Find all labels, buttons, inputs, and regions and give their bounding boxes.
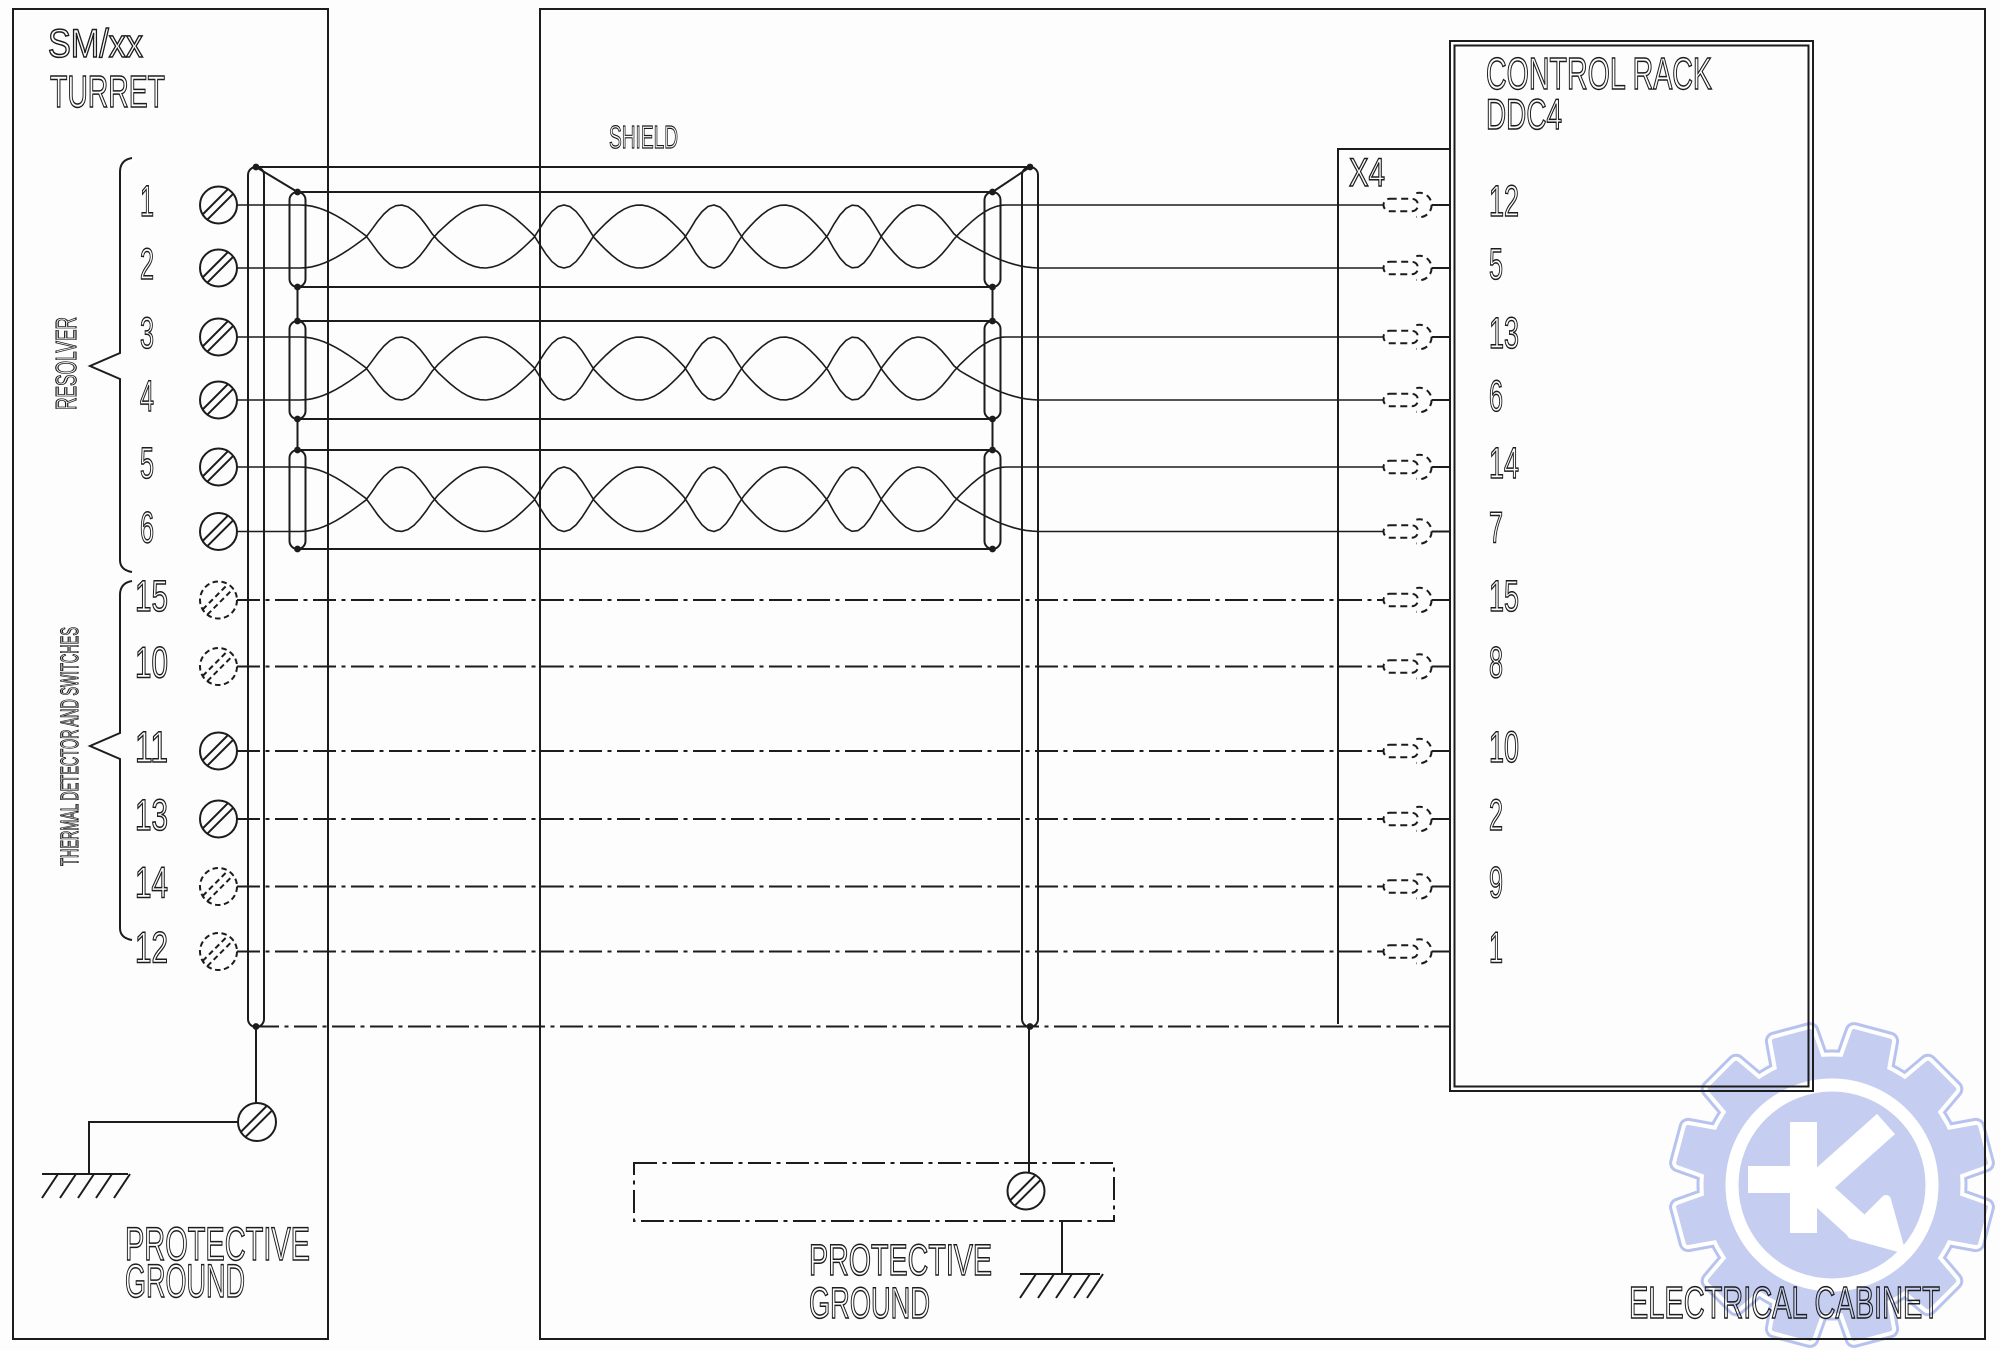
twisted pair wire from terminal 1 — [237, 205, 1383, 268]
X4 pin 8 plug symbol — [1384, 654, 1451, 678]
terminal PE cabinet screw symbol — [1008, 1173, 1045, 1210]
left pair shield segment 2 — [290, 321, 306, 419]
pair 2 shield top wire — [298, 320, 993, 322]
junction dots on shield buses — [253, 164, 1034, 1030]
electrical cabinet enclosure box — [540, 9, 1985, 1339]
svg-text:15: 15 — [1489, 572, 1519, 621]
twisted pair wire from terminal 4 — [237, 337, 1383, 400]
terminal 3 (resolver) screw symbol — [200, 319, 237, 356]
pair 3 shield top wire — [298, 449, 993, 451]
svg-text:2: 2 — [140, 240, 154, 289]
svg-text:6: 6 — [140, 504, 154, 553]
X4 pin 7 plug symbol — [1384, 519, 1451, 543]
brace for THERMAL DETECTOR AND SWITCHES group — [90, 581, 132, 940]
svg-text:11: 11 — [135, 723, 168, 772]
twisted pair wire from terminal 5 — [237, 467, 1383, 532]
right pair shield segment 1 — [985, 192, 1001, 287]
left pair shield segment 1 — [290, 192, 306, 287]
svg-text:5: 5 — [140, 439, 154, 488]
wire shield bus to PE terminal (turret) — [255, 1027, 257, 1104]
wire terminal 11 to X4 pin 10 (dash-dot) — [237, 750, 1384, 752]
svg-text:1: 1 — [140, 177, 154, 226]
twisted pair wire from terminal 2 — [237, 205, 1383, 268]
svg-text:RESOLVER: RESOLVER — [51, 317, 83, 410]
svg-text:SHIELD: SHIELD — [609, 119, 678, 155]
terminal 4 (resolver) screw symbol — [200, 382, 237, 419]
diagonal shield tie left — [256, 167, 298, 192]
svg-text:THERMAL DETECTOR AND SWITCHES: THERMAL DETECTOR AND SWITCHES — [56, 627, 84, 866]
connector X4 box — [1338, 149, 1450, 1024]
svg-text:2: 2 — [1489, 791, 1503, 840]
turret enclosure box SM/xx — [13, 9, 328, 1339]
svg-text:12: 12 — [1489, 177, 1519, 226]
PE bus bar (cabinet, dashed) — [634, 1163, 1114, 1221]
diagonal shield tie right — [993, 167, 1031, 192]
right pair shield segment 2 — [985, 321, 1001, 419]
X4 pin 15 plug symbol — [1384, 588, 1451, 612]
pair 1 shield top wire — [298, 191, 993, 193]
pair 1 shield bottom wire — [298, 286, 993, 288]
wire terminal 15 to X4 pin 15 (dash-dot) — [237, 599, 1384, 601]
svg-text:3: 3 — [140, 309, 154, 358]
link between right shield segments — [992, 287, 994, 450]
twisted pair wire from terminal 3 — [237, 337, 1383, 400]
X4 pin 10 plug symbol — [1384, 739, 1451, 763]
svg-text:TURRET: TURRET — [50, 66, 165, 117]
svg-text:PROTECTIVE: PROTECTIVE — [809, 1236, 992, 1285]
terminal 6 (resolver) screw symbol — [200, 513, 237, 550]
wire shield bus to PE bar (cabinet) — [1028, 1027, 1030, 1173]
svg-text:GROUND: GROUND — [125, 1254, 245, 1307]
X4 pin 5 plug symbol — [1384, 256, 1451, 280]
terminal 11 (thermal/switch) screw symbol — [200, 733, 237, 770]
svg-text:15: 15 — [135, 572, 168, 621]
twisted pair wire from terminal 6 — [237, 467, 1383, 532]
svg-text:10: 10 — [1489, 723, 1519, 772]
shield top wire — [256, 166, 1030, 168]
X4 pin 2 plug symbol — [1384, 807, 1451, 831]
svg-text:13: 13 — [1489, 309, 1519, 358]
watermark: gear logo with K arrow — [1679, 1032, 1986, 1339]
ground symbol (turret) — [42, 1174, 130, 1198]
brace for RESOLVER group — [90, 158, 132, 572]
svg-text:7: 7 — [1489, 504, 1503, 553]
svg-text:ELECTRICAL CABINET: ELECTRICAL CABINET — [1629, 1277, 1940, 1328]
svg-text:SM/xx: SM/xx — [48, 22, 143, 66]
svg-text:10: 10 — [135, 639, 168, 688]
X4 pin 1 plug symbol — [1384, 939, 1451, 963]
link between left shield segments — [297, 287, 299, 450]
svg-text:X4: X4 — [1349, 151, 1385, 195]
svg-text:13: 13 — [135, 791, 168, 840]
X4 pin 12 plug symbol — [1384, 193, 1451, 217]
wire terminal 10 to X4 pin 8 (dash-dot) — [237, 666, 1384, 668]
wire terminal 14 to X4 pin 9 (dash-dot) — [237, 886, 1384, 888]
terminal 1 (resolver) screw symbol — [200, 187, 237, 224]
svg-text:5: 5 — [1489, 240, 1503, 289]
X4 pin 13 plug symbol — [1384, 325, 1451, 349]
terminal 13 (thermal/switch) screw symbol — [200, 801, 237, 838]
svg-text:12: 12 — [135, 924, 168, 973]
terminal 5 (resolver) screw symbol — [200, 449, 237, 486]
svg-text:9: 9 — [1489, 859, 1503, 908]
wire terminal 12 to X4 pin 1 (dash-dot) — [237, 951, 1384, 953]
ground symbol (cabinet) — [1020, 1274, 1103, 1298]
wire PE bar to ground (cabinet) — [1061, 1221, 1063, 1274]
svg-text:14: 14 — [135, 859, 168, 908]
control rack DDC4 box (double border) — [1450, 41, 1813, 1091]
svg-text:6: 6 — [1489, 372, 1503, 421]
svg-text:4: 4 — [140, 372, 154, 421]
svg-text:GROUND: GROUND — [809, 1279, 930, 1328]
X4 pin 14 plug symbol — [1384, 455, 1451, 479]
terminal PE turret screw symbol — [238, 1103, 276, 1141]
right cable shield bus (long) — [1022, 167, 1038, 1027]
right pair shield segment 3 — [985, 450, 1001, 549]
wire terminal 13 to X4 pin 2 (dash-dot) — [237, 818, 1384, 820]
terminal 10 (thermal/switch) screw symbol — [200, 648, 237, 685]
svg-text:1: 1 — [1489, 924, 1503, 973]
pair 2 shield bottom wire — [298, 418, 993, 420]
terminal 2 (resolver) screw symbol — [200, 250, 237, 287]
svg-text:14: 14 — [1489, 439, 1519, 488]
wire PE terminal to ground (turret) — [89, 1122, 238, 1174]
terminal 14 (thermal/switch) screw symbol — [200, 868, 237, 905]
X4 pin 6 plug symbol — [1384, 388, 1451, 412]
terminal 15 (thermal/switch) screw symbol — [200, 582, 237, 619]
pair 3 shield bottom wire — [298, 548, 993, 550]
terminal 12 (thermal/switch) screw symbol — [200, 933, 237, 970]
left cable shield bus (long) — [248, 167, 264, 1027]
svg-text:DDC4: DDC4 — [1486, 91, 1562, 139]
svg-text:8: 8 — [1489, 639, 1503, 688]
X4 pin 9 plug symbol — [1384, 874, 1451, 898]
left pair shield segment 3 — [290, 450, 306, 549]
shield drain wire (dashed) to X4 — [256, 1026, 1450, 1028]
